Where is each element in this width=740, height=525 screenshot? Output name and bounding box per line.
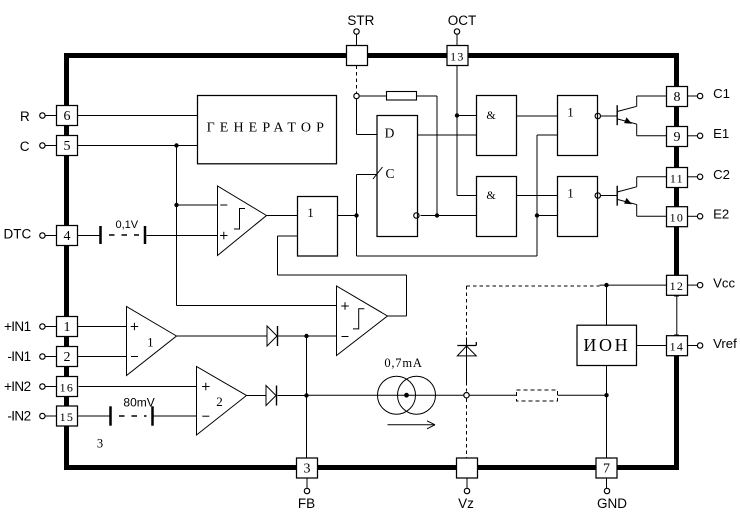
svg-text:14: 14 bbox=[670, 340, 685, 354]
svg-text:1: 1 bbox=[307, 205, 314, 220]
svg-text:Vref: Vref bbox=[713, 336, 737, 351]
svg-text:6: 6 bbox=[64, 109, 71, 124]
svg-text:STR: STR bbox=[347, 13, 374, 28]
svg-text:9: 9 bbox=[674, 130, 681, 145]
svg-text:ИОН: ИОН bbox=[583, 335, 630, 355]
svg-text:D: D bbox=[385, 126, 395, 141]
svg-text:&: & bbox=[486, 188, 496, 202]
svg-text:C: C bbox=[385, 166, 394, 181]
svg-text:2: 2 bbox=[216, 394, 223, 409]
svg-text:+IN1: +IN1 bbox=[4, 319, 31, 334]
svg-text:5: 5 bbox=[64, 139, 71, 154]
svg-text:1: 1 bbox=[64, 320, 71, 335]
svg-text:15: 15 bbox=[60, 410, 75, 424]
svg-text:C2: C2 bbox=[713, 167, 730, 182]
svg-text:1: 1 bbox=[567, 186, 574, 201]
svg-text:1: 1 bbox=[147, 335, 154, 350]
svg-text:-IN2: -IN2 bbox=[7, 409, 30, 424]
svg-text:DTC: DTC bbox=[4, 227, 32, 242]
svg-text:13: 13 bbox=[450, 49, 465, 63]
svg-text:FB: FB bbox=[298, 496, 315, 511]
svg-text:E1: E1 bbox=[713, 126, 729, 141]
svg-text:1: 1 bbox=[567, 105, 574, 120]
svg-text:16: 16 bbox=[60, 380, 75, 394]
svg-text:2: 2 bbox=[64, 350, 71, 365]
svg-text:3: 3 bbox=[304, 462, 311, 477]
svg-text:8: 8 bbox=[674, 90, 681, 105]
svg-text:&: & bbox=[486, 108, 496, 122]
svg-text:10: 10 bbox=[670, 211, 685, 225]
svg-text:0,7mA: 0,7mA bbox=[384, 356, 422, 370]
svg-text:E2: E2 bbox=[713, 206, 729, 221]
svg-text:3: 3 bbox=[97, 437, 103, 451]
svg-text:OCT: OCT bbox=[448, 13, 477, 28]
svg-text:-IN1: -IN1 bbox=[7, 349, 30, 364]
svg-text:ГЕНЕРАТОР: ГЕНЕРАТОР bbox=[207, 120, 329, 135]
svg-text:12: 12 bbox=[670, 279, 685, 293]
svg-text:7: 7 bbox=[603, 462, 610, 477]
svg-text:R: R bbox=[20, 109, 30, 124]
svg-text:C1: C1 bbox=[713, 86, 730, 101]
svg-text:GND: GND bbox=[597, 496, 627, 511]
svg-text:0,1V: 0,1V bbox=[115, 219, 138, 231]
svg-text:C: C bbox=[20, 139, 30, 154]
svg-text:11: 11 bbox=[670, 171, 684, 185]
svg-text:80mV: 80mV bbox=[123, 396, 154, 410]
svg-text:Vz: Vz bbox=[458, 496, 474, 511]
svg-text:4: 4 bbox=[64, 229, 71, 244]
svg-text:Vcc: Vcc bbox=[713, 276, 735, 291]
svg-text:+IN2: +IN2 bbox=[4, 379, 31, 394]
